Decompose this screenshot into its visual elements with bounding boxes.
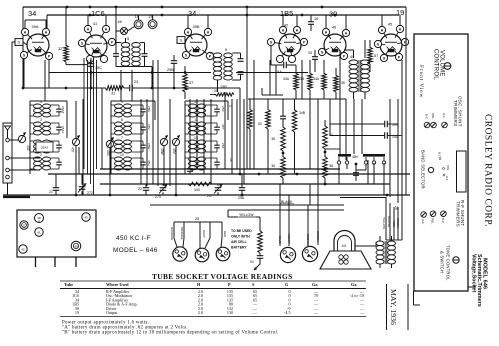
resistor 33 (323, 124, 328, 149)
svg-text:36: 36 (271, 164, 275, 168)
table bottom rule (60, 316, 366, 318)
i-f transformer 6 secondary winding (224, 53, 233, 58)
wire resistor 32 (65, 7, 67, 44)
svg-text:5: 5 (127, 36, 129, 41)
osc trimmer screw POL (431, 122, 437, 128)
plug pin wires (174, 238, 177, 247)
second top bus wire (47, 14, 399, 16)
svg-text:45T: 45T (71, 147, 75, 153)
wire to output transformer (340, 197, 386, 199)
tube V1 34 R-F amplifier (socket 39A) (27, 34, 49, 56)
terminal A (6, 138, 10, 142)
capacitor 19Y (384, 121, 386, 128)
top supply bus wire (23, 6, 406, 8)
capacitor 21 (53, 187, 60, 189)
svg-text:10: 10 (120, 153, 124, 157)
svg-text:H-F: H-F (442, 113, 446, 118)
svg-text:"B" battery drain approximatel: "B" battery drain approximately 12 to 30… (62, 331, 279, 336)
tone switch terminals (338, 157, 340, 161)
table top rule (60, 280, 366, 282)
resistor 51 ballast (258, 229, 263, 253)
svg-text:Front View: Front View (418, 65, 424, 98)
antenna coil 2 (34, 157, 42, 161)
svg-text:39B: 39B (193, 24, 200, 29)
i-f transformer 6 primary winding (213, 53, 222, 58)
wires transformer 5 (116, 42, 121, 44)
speaker plug P4 (280, 247, 295, 262)
svg-text:130: 130 (227, 310, 233, 315)
speaker field magnet (334, 231, 355, 252)
svg-text:48V: 48V (352, 155, 359, 159)
wire cap 15C (90, 58, 92, 64)
oscillator coil lower (189, 157, 197, 161)
tube V2 1C6 osc-modulator (41) (85, 35, 107, 57)
svg-text:BAND SELECTOR: BAND SELECTOR (421, 150, 426, 189)
svg-text:57: 57 (374, 54, 378, 58)
svg-text:ONLY WITH: ONLY WITH (231, 235, 250, 239)
svg-text:BLACK: BLACK (281, 200, 293, 204)
svg-text:217: 217 (207, 194, 213, 198)
control panel outline (414, 34, 468, 291)
svg-text:8: 8 (121, 118, 123, 122)
bus wire upper (100, 168, 340, 170)
svg-text:2: 2 (40, 153, 42, 157)
svg-text:41: 41 (93, 21, 97, 26)
svg-text:34: 34 (188, 9, 196, 18)
capacitor 16 on 1B5 plate line (308, 21, 314, 23)
wire resistor 34B (294, 99, 296, 108)
wire V1 grid lead (12, 41, 15, 43)
svg-text:43Z: 43Z (26, 145, 30, 151)
svg-text:33A: 33A (283, 77, 290, 81)
junction (246, 6, 249, 9)
resistor 38 (334, 74, 339, 92)
ground lead from strip (7, 183, 9, 195)
volume control shaft (444, 63, 451, 70)
svg-text:34B: 34B (299, 111, 306, 115)
svg-text:TONE CONTROL: TONE CONTROL (446, 245, 451, 281)
wave-band switch 43 (18, 135, 25, 142)
ground arrow (254, 258, 260, 270)
band selector window (457, 151, 467, 192)
svg-text:30: 30 (329, 10, 337, 19)
trimmer capacitor 27X (160, 187, 167, 189)
junction dots on buses (75, 194, 78, 197)
terminal 3 (6, 168, 10, 172)
transformer 49 core (358, 60, 360, 92)
resistor 36 lower (281, 155, 286, 178)
resistor 32 (64, 44, 69, 62)
terminal G (6, 175, 10, 179)
speaker plug P5 (302, 246, 317, 261)
resistor 340 (186, 182, 212, 186)
capacitor 17 (187, 168, 193, 170)
svg-text:35: 35 (214, 89, 218, 93)
wire V5 H to bus (325, 15, 327, 28)
oscillator coil 13 (189, 140, 197, 144)
trimmer capacitor 217 (215, 187, 222, 189)
svg-text:25A1: 25A1 (61, 126, 65, 134)
svg-text:25V: 25V (147, 124, 151, 130)
rule left of date (386, 284, 388, 330)
wires to speaker plugs (279, 205, 281, 246)
phone jack 18 left (134, 20, 143, 29)
voice coil (339, 255, 343, 259)
wires transformer 6 (232, 52, 240, 54)
wire jacks (138, 15, 140, 20)
wire cap 15A (276, 64, 284, 66)
r-f coil 8 (115, 122, 123, 126)
capacitor 25B (171, 60, 178, 62)
table header rule (60, 288, 366, 290)
svg-text:H-F.: H-F. (421, 219, 425, 224)
svg-text:21: 21 (49, 190, 53, 194)
resistor 49A (248, 108, 253, 129)
corner rule near model block (467, 237, 469, 287)
transformer 5 trimmer capacitor right (142, 53, 148, 55)
socket 41 position (35, 228, 43, 236)
svg-text:50: 50 (258, 122, 262, 126)
speaker cone (320, 251, 371, 269)
svg-text:G: G (321, 50, 324, 54)
svg-text:TRIMMERS: TRIMMERS (456, 201, 461, 227)
wires transformer 49 (353, 50, 355, 58)
output transformer on speaker primary winding (376, 241, 384, 246)
rf trimmer screw POL (430, 211, 436, 217)
transformer 6 trimmer capacitor lower (238, 71, 244, 73)
wire V1 cathode down (23, 59, 25, 88)
svg-text:25B: 25B (167, 68, 174, 72)
svg-text:MAY, 1936: MAY, 1936 (389, 289, 398, 325)
wire V3 H to bus (187, 15, 189, 28)
resistor 34B (292, 108, 297, 132)
svg-text:ORANGE: ORANGE (180, 227, 184, 240)
i-f transformer 5 primary winding (121, 43, 130, 48)
svg-text:45W: 45W (160, 148, 164, 156)
junction (321, 6, 324, 9)
band switch 45V (172, 138, 179, 145)
tone switch contact bar right (363, 154, 385, 157)
grid return bus (49, 72, 211, 74)
capacitor below resistor 51 (257, 255, 264, 257)
transformer 6 trimmer capacitor upper (238, 58, 244, 60)
svg-text:25A2: 25A2 (41, 146, 49, 150)
svg-text:34A: 34A (313, 77, 320, 81)
yellow wire (227, 210, 229, 217)
resistor 33A (294, 72, 299, 90)
avc line with resistor 31 (23, 87, 104, 89)
rf trimmer screw H-F (421, 212, 427, 218)
svg-text:32: 32 (58, 46, 62, 51)
svg-text:Output: Output (106, 310, 118, 315)
junction (161, 14, 164, 17)
wire switch 45W (163, 146, 165, 186)
tube V5 30 driver (40) (324, 34, 346, 56)
tube V6 19 output (45) (380, 34, 402, 56)
wire switch 45V (175, 146, 177, 195)
wires driver stage resistors (295, 65, 297, 72)
svg-text:Ga: Ga (312, 282, 318, 287)
svg-text:340: 340 (194, 188, 200, 192)
svg-text:27X: 27X (155, 195, 162, 199)
svg-text:42: 42 (21, 247, 25, 251)
svg-text:2.0: 2.0 (198, 310, 203, 315)
transformer 5 trimmer capacitor left (113, 53, 119, 55)
rf trimmer screw B-C (441, 211, 447, 217)
svg-text:18: 18 (149, 15, 153, 19)
svg-text:37: 37 (189, 81, 193, 85)
bus wire screen (100, 183, 390, 185)
output transformer 49 secondary winding (361, 60, 370, 65)
capacitor 19Z (384, 132, 386, 139)
svg-text:1B5: 1B5 (280, 9, 293, 18)
svg-text:25W: 25W (147, 143, 151, 149)
wire V4 H to bus (282, 15, 284, 26)
ground hatch (3, 196, 30, 198)
svg-text:19: 19 (75, 310, 79, 315)
cable wires down (173, 222, 175, 238)
svg-text:38: 38 (341, 81, 345, 85)
wire bundle below V2 (83, 58, 85, 169)
svg-text:51: 51 (250, 260, 254, 264)
band selector shaft (428, 167, 433, 172)
wire vertical left edge (22, 7, 24, 88)
wire resistor 50 (267, 99, 269, 108)
wire resistor 33/36 (324, 120, 326, 124)
svg-text:42: 42 (284, 23, 288, 28)
wires from terminal strip (9, 139, 18, 141)
svg-text:45Y: 45Y (221, 124, 225, 130)
svg-text:1C6: 1C6 (91, 9, 105, 18)
svg-text:G: G (270, 40, 273, 44)
svg-text:MAROON: MAROON (170, 227, 174, 240)
svg-text:RED: RED (223, 231, 227, 237)
oscillator coil 11 (189, 122, 197, 126)
wire resistor 57 (369, 40, 371, 46)
socket 40 position (71, 241, 81, 251)
cable wires right side (385, 197, 387, 240)
junction (115, 6, 118, 9)
i-f transformer 5 secondary winding (132, 43, 141, 48)
svg-text:272: 272 (87, 191, 93, 195)
capacitor 22 (143, 187, 150, 189)
wire cap 25B (173, 55, 175, 61)
wire resistor 37 (184, 66, 186, 72)
svg-text:23: 23 (134, 80, 138, 84)
svg-text:36: 36 (271, 137, 275, 141)
antenna coil 25A2 (34, 140, 42, 144)
pilot lamp 46 (121, 28, 128, 35)
speaker transformer wires (379, 236, 381, 241)
svg-text:TUBE SOCKET VOLTAGE READINGS: TUBE SOCKET VOLTAGE READINGS (152, 272, 293, 281)
r-f coil 10 (115, 157, 123, 161)
wires joining speaker plugs (386, 239, 402, 241)
svg-text:45: 45 (388, 22, 392, 27)
svg-text:YELLOW: YELLOW (382, 217, 386, 229)
junction (334, 14, 337, 17)
svg-text:G: G (383, 56, 386, 60)
terminal 2 (6, 156, 10, 160)
svg-text:TO BE USED: TO BE USED (231, 229, 252, 233)
svg-text:25X: 25X (221, 106, 225, 112)
socket 43 position (82, 213, 90, 221)
svg-text:25G: 25G (147, 106, 151, 112)
wire 1B5 grid to cap 15A (270, 46, 272, 65)
junction (246, 14, 249, 17)
svg-text:16: 16 (314, 17, 318, 21)
resistor 36 upper (281, 125, 286, 151)
svg-text:43: 43 (84, 215, 88, 219)
capacitor 20 (312, 56, 318, 58)
wire lamp to bus (115, 7, 117, 31)
svg-text:POL.: POL. (431, 113, 435, 120)
wire heater V1 (24, 20, 26, 28)
svg-text:25Z: 25Z (221, 143, 225, 148)
wire resistor 36 chain (282, 99, 284, 116)
svg-text:450 KC I-F: 450 KC I-F (116, 235, 151, 242)
wire switch 45X (109, 148, 111, 195)
svg-text:Ga: Ga (351, 282, 357, 287)
svg-text:22: 22 (138, 187, 142, 191)
junction (89, 6, 92, 9)
antenna coil 4 (34, 104, 42, 108)
output transformer secondary winding (388, 241, 396, 246)
bus wire lower (228, 209, 344, 211)
capacitor 36A (280, 115, 286, 117)
svg-text:28: 28 (195, 217, 199, 221)
bus wire black lead (150, 204, 344, 206)
svg-text:BATTERY: BATTERY (231, 246, 247, 250)
svg-text:31: 31 (111, 92, 115, 96)
svg-text:B-C: B-C (425, 114, 429, 119)
mid horizontal links (262, 94, 283, 96)
junction (301, 14, 304, 17)
svg-text:TRIMMERS: TRIMMERS (453, 100, 458, 126)
battery plug P3 (216, 247, 230, 261)
phone jack 18 right (148, 20, 157, 29)
svg-text:25A: 25A (238, 196, 245, 200)
osc trimmer screw H-F (442, 122, 448, 128)
svg-text:41: 41 (37, 230, 41, 234)
wire switch 45T (75, 146, 77, 195)
battery plug P2 (195, 248, 209, 262)
svg-text:MODEL – 646: MODEL – 646 (113, 247, 158, 254)
svg-text:34: 34 (28, 9, 36, 18)
svg-text:3: 3 (40, 118, 42, 122)
output transformer core (384, 241, 386, 264)
antenna symbol (5, 126, 11, 130)
svg-text:CROSLEY RADIO CORP.: CROSLEY RADIO CORP. (483, 114, 493, 227)
osc trimmer screw B-C (424, 122, 430, 128)
svg-text:POL.: POL. (431, 218, 435, 225)
chassis tube layout box (17, 210, 96, 257)
svg-text:B-C: B-C (438, 152, 442, 157)
svg-text:H-F: H-F (445, 176, 449, 181)
battery cable bracket 28 (174, 221, 222, 223)
r-f coil 7 (115, 140, 123, 144)
svg-text:Where Used: Where Used (106, 282, 129, 287)
band switch 45X (106, 140, 113, 147)
svg-text:CONTROL: CONTROL (433, 49, 439, 80)
resistor 50 (266, 108, 271, 129)
trimmer capacitor 272 (79, 186, 86, 188)
junction (161, 6, 164, 9)
rule right of date (407, 284, 409, 330)
resistor 36C (323, 155, 328, 178)
group 1 rails (29, 101, 31, 174)
svg-text:B-C: B-C (441, 218, 445, 223)
svg-text:-4.5: -4.5 (284, 310, 290, 315)
wire cap 20 (314, 50, 316, 57)
capacitor 25A (239, 187, 246, 189)
resistor 37 (183, 72, 188, 92)
tube V4 1B5 diode & A-F amp (42) (279, 34, 301, 56)
band switch 45W (160, 138, 167, 145)
junction (89, 14, 92, 17)
socket 39 position (35, 214, 44, 223)
capacitor 15A (283, 62, 285, 69)
tone switch contact bar left (338, 154, 351, 157)
tone control shaft (453, 257, 459, 263)
chassis mounting legs (35, 257, 37, 267)
tone switch wiring (338, 164, 340, 184)
svg-text:25A3: 25A3 (61, 106, 65, 114)
resistor 33B (308, 72, 313, 90)
svg-text:GRAY: GRAY (202, 230, 206, 238)
group 3 rails (184, 101, 186, 174)
svg-text:P: P (228, 282, 231, 287)
wire V1 H to bus (45, 20, 47, 28)
wire cap 16 (310, 15, 312, 22)
svg-text:46: 46 (118, 20, 122, 24)
svg-text:45V: 45V (172, 148, 176, 155)
output transformer 49 primary winding (349, 60, 358, 65)
svg-text:G: G (377, 42, 380, 46)
bus wire B plus (48, 173, 410, 175)
wire V6 H to bus (381, 15, 383, 26)
socket 42 position (19, 245, 27, 253)
group 2 rails (110, 101, 112, 174)
svg-text:39A: 39A (32, 24, 39, 29)
svg-text:45X: 45X (106, 150, 110, 157)
svg-text:6: 6 (225, 47, 227, 52)
svg-text:AIR CELL: AIR CELL (231, 240, 247, 244)
oscillator coil 12 (189, 104, 197, 108)
band switch 45T (72, 138, 79, 145)
svg-text:POL: POL (446, 165, 450, 171)
svg-text:29: 29 (394, 206, 398, 210)
wire (46, 15, 48, 29)
svg-text:YELLOW: YELLOW (239, 213, 254, 217)
wires caps 19Y 19Z (330, 123, 385, 125)
wire below panel (413, 291, 415, 305)
svg-text:36: 36 (329, 164, 333, 168)
interconnecting vertical wires (44, 60, 46, 101)
capacitor 24 (353, 172, 359, 174)
svg-text:20: 20 (308, 51, 312, 55)
r-f coil 9 (115, 104, 123, 108)
svg-text:Tube: Tube (64, 282, 73, 287)
antenna terminal strip (3, 123, 12, 183)
capacitor 15C (88, 63, 95, 65)
antenna coil 3 (34, 122, 42, 126)
wire V2 H to bus (87, 15, 89, 25)
svg-text:40: 40 (74, 244, 78, 248)
battery plug P1 (173, 247, 187, 261)
socket 37 position (20, 221, 28, 229)
svg-text:7: 7 (121, 136, 123, 140)
capacitor 23 (124, 87, 130, 89)
